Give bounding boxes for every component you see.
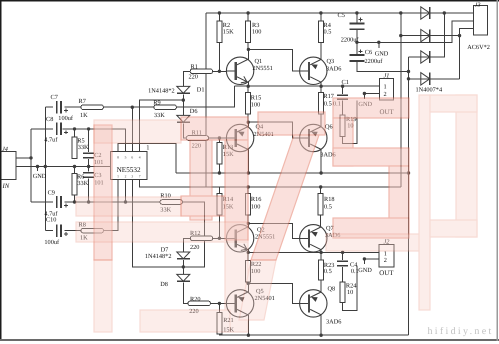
resistor R17 0.5 xyxy=(319,92,324,114)
wire C1 top lead xyxy=(342,86,344,94)
junction at (248.2,86.2) xyxy=(247,85,250,88)
wire opamp pin1 to -V rail xyxy=(118,144,176,174)
junction at (321.1,86.2) xyxy=(319,85,322,88)
junction at (408.5,78.8) xyxy=(407,77,410,80)
wire R1 row into Q1 base xyxy=(213,70,227,72)
svg-text:6: 6 xyxy=(131,155,133,159)
svg-text:15K: 15K xyxy=(223,29,234,36)
wire opamp out A to bias node xyxy=(140,100,184,151)
svg-text:hifidiy.net: hifidiy.net xyxy=(428,326,494,337)
junction at (219.4,71.3) xyxy=(218,70,221,73)
wire Q4 collector node to Q6 base xyxy=(248,122,299,138)
svg-text:1: 1 xyxy=(117,175,119,179)
svg-text:4.7uf: 4.7uf xyxy=(44,137,58,144)
wire Q2 collector stub xyxy=(247,223,249,227)
junction at (248.4,335.2) xyxy=(247,334,250,337)
connector J3 xyxy=(473,6,487,35)
capacitor C10 100uf xyxy=(56,224,68,236)
wire C9 right to R10 row xyxy=(64,201,160,203)
wire R12 row to Q2 base xyxy=(213,237,227,239)
wire GND stub at J4 xyxy=(37,167,39,172)
junction at (45.3,166.5) xyxy=(44,165,47,168)
wire Q2 emitter to out rail 2 xyxy=(247,250,249,253)
wire Q2 collector node to Q7 base xyxy=(248,223,299,238)
svg-text:8: 8 xyxy=(117,155,119,159)
svg-text:0.5: 0.5 xyxy=(324,29,332,36)
svg-text:GND: GND xyxy=(33,173,47,180)
wire Q6 collector to -V rail xyxy=(320,149,322,173)
transistor Q1 2N5551 xyxy=(226,57,253,84)
svg-text:1N4007*4: 1N4007*4 xyxy=(416,87,443,94)
diode D9 1N4007 xyxy=(421,73,430,85)
junction at (364.4,93.5) xyxy=(363,92,366,95)
capacitor C8 4.7uf xyxy=(56,123,68,135)
wire output rail 2 xyxy=(248,251,379,253)
wire Q4 collector stub xyxy=(247,122,249,126)
diode D5 1N4007 xyxy=(421,51,430,63)
capacitor C6 2200uf xyxy=(349,49,364,62)
diode D8 xyxy=(177,274,190,281)
svg-text:220: 220 xyxy=(190,244,199,251)
svg-text:2: 2 xyxy=(384,91,387,98)
svg-text:R7: R7 xyxy=(79,98,86,105)
resistor R20 220 xyxy=(188,301,210,306)
wire +V top rail xyxy=(206,12,473,14)
svg-text:7: 7 xyxy=(139,175,141,179)
junction at (342.6,252.4) xyxy=(341,251,344,254)
wire R6 top lead xyxy=(74,167,76,174)
op-amp U1 NE5532 xyxy=(111,152,147,180)
junction at (408.5,71.5) xyxy=(407,70,410,73)
wire D8 to R20 row xyxy=(183,282,188,303)
wire Q5 collector stub xyxy=(247,283,249,292)
resistor R15 100 xyxy=(246,92,251,114)
svg-text:220: 220 xyxy=(189,74,198,81)
capacitor C5 2200uf xyxy=(349,18,364,30)
junction at (248.2,283.4) xyxy=(247,282,250,285)
transistor Q8 3AD6 xyxy=(300,290,327,317)
wire C7-C10 ground vertical xyxy=(44,107,46,230)
svg-text:2200uf: 2200uf xyxy=(365,58,384,65)
svg-text:100: 100 xyxy=(251,203,260,210)
svg-text:NE5532: NE5532 xyxy=(117,166,141,174)
wire Q4 emitter to -V rail xyxy=(247,149,249,173)
diode D1 xyxy=(177,86,190,93)
resistor R10 33K xyxy=(160,200,182,205)
svg-text:1: 1 xyxy=(384,84,387,91)
transistor Q5 2N5401 xyxy=(226,290,253,317)
wire -V rail upper half xyxy=(176,172,409,174)
svg-text:0.5: 0.5 xyxy=(324,101,332,108)
wire C9 left lead xyxy=(31,201,53,203)
resistor R5 33K xyxy=(72,137,77,159)
wire C6 bottom to -V vertical xyxy=(357,62,409,71)
resistor R22 100 xyxy=(246,260,251,282)
junction at (356.9,13) xyxy=(355,11,358,14)
wire R4 leads xyxy=(320,13,322,21)
border frame xyxy=(0,0,499,2)
junction at (248.2,252.4) xyxy=(247,251,250,254)
junction at (400.8,13) xyxy=(399,11,402,14)
wire GND stub at C5/C6 xyxy=(378,42,380,48)
svg-text:AC6V*2: AC6V*2 xyxy=(467,44,490,51)
svg-text:Q3: Q3 xyxy=(327,58,335,65)
wire R21 top lead xyxy=(218,303,220,312)
wire J1 pin2 GND row xyxy=(364,93,379,95)
transistor Q3 3AD6 xyxy=(300,57,327,84)
junction at (356.9,42.3) xyxy=(355,41,358,44)
wire D7 to bias node xyxy=(182,260,184,267)
wire opamp in+ node from C8 xyxy=(62,129,125,152)
svg-text:3: 3 xyxy=(131,175,133,179)
wire C5 leads xyxy=(356,13,358,23)
junction at (183.3,266.9) xyxy=(182,265,185,268)
junction at (248.2,122.2) xyxy=(247,121,250,124)
svg-text:2N5551: 2N5551 xyxy=(253,65,273,72)
wire C3 leads xyxy=(88,167,90,172)
svg-text:Q6: Q6 xyxy=(325,124,333,131)
wire R13 top lead xyxy=(218,138,220,142)
resistor R14 15K xyxy=(217,193,222,215)
svg-text:C5: C5 xyxy=(338,12,345,19)
wire R7 right to R9 node xyxy=(103,106,154,108)
resistor R9 33K xyxy=(154,105,176,110)
capacitor C1 0.1 xyxy=(337,94,348,100)
svg-text:1N4148*2: 1N4148*2 xyxy=(148,88,175,95)
wire C2 bottom lead xyxy=(88,159,90,167)
wire mid GND row to opamp xyxy=(16,166,111,168)
junction at (364.4,258.9) xyxy=(363,257,366,260)
svg-text:4: 4 xyxy=(139,155,141,159)
wire R10 right to bottom bias node xyxy=(182,202,204,267)
svg-text:R1: R1 xyxy=(191,63,198,70)
wire C8 left lead xyxy=(31,128,53,130)
connector J1 xyxy=(380,79,394,100)
wire C7 left lead xyxy=(45,106,53,108)
svg-text:1N4148*2: 1N4148*2 xyxy=(145,253,172,260)
wire C10 left lead xyxy=(45,230,53,232)
svg-text:J3: J3 xyxy=(475,2,481,8)
wire bias node to D8 xyxy=(182,267,184,275)
junction at (74.5,166.5) xyxy=(73,165,76,168)
junction at (248.4,173) xyxy=(247,171,250,174)
junction at (400.8,35.6) xyxy=(399,34,402,37)
svg-text:33K: 33K xyxy=(77,180,88,187)
wire opamp out B to bottom bias node xyxy=(132,180,183,267)
wire Q1 collector to R3 node and over to Q3 base xyxy=(248,49,300,71)
capacitor C7 100uf xyxy=(56,101,68,113)
junction at (74.5,202) xyxy=(73,200,76,203)
junction at (132.3,107.2) xyxy=(131,106,134,109)
svg-text:OUT: OUT xyxy=(379,270,394,277)
wire R5 top lead xyxy=(74,129,76,137)
svg-text:J4: J4 xyxy=(2,146,8,153)
wire R6 bottom lead xyxy=(74,195,76,202)
junction at (183.3,100.1) xyxy=(182,98,185,101)
svg-text:D1: D1 xyxy=(197,86,205,93)
junction at (459.5,35.6) xyxy=(458,34,461,37)
junction at (37.5,166.5) xyxy=(36,165,39,168)
svg-text:2: 2 xyxy=(384,257,387,264)
junction at (444.3,13) xyxy=(443,11,446,14)
wire R15 leads xyxy=(247,86,249,92)
wire chain R1 left corner down to D1 xyxy=(183,71,190,86)
wire -V rail bottom xyxy=(219,334,408,335)
resistor R13 15K xyxy=(217,142,222,164)
wire Q8 collector to bottom rail xyxy=(320,315,322,335)
resistor R16 100 xyxy=(246,193,251,215)
diode D7 xyxy=(177,252,190,259)
svg-text:D8: D8 xyxy=(160,281,168,288)
resistor R11 220 xyxy=(186,136,208,141)
wire GND2 stub xyxy=(363,259,365,264)
junction at (125.5,202) xyxy=(124,200,127,203)
junction at (88.6,166.5) xyxy=(87,165,90,168)
wire R14 top lead xyxy=(218,187,220,193)
wire C7 right to R7 xyxy=(64,106,81,108)
resistor R21 15K xyxy=(217,313,222,335)
transistor Q6 3AD6 xyxy=(300,124,327,151)
wire C6 top lead xyxy=(356,42,358,54)
svg-text:5: 5 xyxy=(125,155,127,159)
junction at (248.2,223.4) xyxy=(247,222,250,225)
wire Q7 emitter to out rail 2 xyxy=(320,250,322,253)
wire Q5 emitter to bottom rail xyxy=(247,315,249,335)
connector J4 xyxy=(1,152,16,180)
wire D3 row xyxy=(409,13,445,57)
wire J2 pin2 GND row xyxy=(364,258,379,260)
wire Q1 collector stub xyxy=(247,49,249,59)
junction at (219.4,173) xyxy=(218,171,221,174)
wire Q3 collector to R4 xyxy=(320,43,322,60)
resistor R2 15K xyxy=(217,21,222,43)
wire Q3 emitter to out rail xyxy=(320,82,322,86)
svg-text:0.5: 0.5 xyxy=(324,268,332,275)
wire C4 bottom to R24 xyxy=(342,267,344,282)
wire bottom chain R12 corner xyxy=(183,238,190,252)
wire GND1 stub xyxy=(363,94,365,99)
transistor Q2 2N5551 xyxy=(226,225,253,252)
svg-text:IN: IN xyxy=(2,183,10,190)
wire D4 row xyxy=(409,78,460,80)
svg-text:R17: R17 xyxy=(323,93,334,100)
svg-text:Q8: Q8 xyxy=(328,285,336,292)
wire R9 right to output rail corner xyxy=(176,86,234,107)
svg-text:GND: GND xyxy=(358,267,372,274)
svg-text:0.5: 0.5 xyxy=(324,203,332,210)
svg-text:J1: J1 xyxy=(384,73,390,80)
junction at (378.8,42.3) xyxy=(377,41,380,44)
wire C10 right to R8 xyxy=(64,230,81,232)
junction at (248.4,49.4) xyxy=(247,48,250,51)
wire R8 right to opamp stub xyxy=(103,180,118,231)
svg-text:C8: C8 xyxy=(46,116,53,123)
wire rectifier -V vertical (D3/D4 anodes) xyxy=(408,57,410,335)
wire R20 row to Q5 base xyxy=(210,302,226,304)
wire R3 leads xyxy=(247,13,249,21)
svg-text:R16: R16 xyxy=(251,196,262,203)
wire R23 leads xyxy=(320,252,322,260)
junction at (321.1,173) xyxy=(319,171,322,174)
transistor Q7 3AD6 xyxy=(300,225,327,252)
svg-text:100: 100 xyxy=(252,29,261,36)
junction at (321.1,335.2) xyxy=(319,334,322,337)
svg-text:R20: R20 xyxy=(190,296,201,303)
diode D4 1N4007 xyxy=(421,29,430,41)
svg-text:GND: GND xyxy=(375,51,389,58)
svg-text:1: 1 xyxy=(146,145,149,152)
resistor R19 10 xyxy=(340,115,345,137)
resistor R24 10 xyxy=(340,282,345,302)
connector J2 xyxy=(379,245,394,268)
diode D6 xyxy=(177,115,190,122)
wire rectifier negative vertical (D1/D2 anodes) xyxy=(400,13,402,187)
resistor R23 0.5 xyxy=(319,260,324,280)
junction at (320.7,187) xyxy=(319,185,322,188)
capacitor C4 0.1 xyxy=(337,261,348,267)
svg-text:3AD6: 3AD6 xyxy=(326,318,341,325)
wire C1 bottom to R19 xyxy=(342,101,344,116)
svg-text:33K: 33K xyxy=(78,144,89,151)
junction at (219.4,303.4) xyxy=(218,302,221,305)
wire R18 leads xyxy=(320,187,322,193)
wire R16 leads xyxy=(247,187,249,193)
junction at (248.1,13) xyxy=(246,11,249,14)
watermark 1975 logo xyxy=(94,98,409,260)
junction at (88.6,202) xyxy=(87,200,90,203)
wire +V left drop to lower rail xyxy=(205,13,207,187)
wire D1 to bias node xyxy=(182,94,184,100)
svg-text:2: 2 xyxy=(125,175,127,179)
svg-text:R15: R15 xyxy=(251,94,261,101)
svg-text:R9: R9 xyxy=(153,99,160,106)
wire J4 signal stub to input vertical xyxy=(16,157,31,159)
wire C4 top lead xyxy=(342,252,344,260)
wire R22 leads xyxy=(247,252,249,260)
svg-text:10: 10 xyxy=(347,289,353,296)
svg-text:100uf: 100uf xyxy=(58,115,74,122)
wire center tap to J3 pin2 xyxy=(357,21,474,43)
junction at (219.4,13) xyxy=(218,11,221,14)
svg-text:C1: C1 xyxy=(342,79,349,86)
wire D6 to R11 row xyxy=(183,123,186,138)
wire Q5 collector node to Q8 base xyxy=(248,283,299,303)
resistor R6 33K xyxy=(72,174,77,196)
junction at (342.6,86.2) xyxy=(341,85,344,88)
junction at (31,157.9) xyxy=(29,156,32,159)
svg-text:C6: C6 xyxy=(365,49,372,56)
wire R9 left to pin stub xyxy=(132,107,154,151)
wire R14 bottom to Q2 base row xyxy=(218,215,220,238)
resistor R18 0.5 xyxy=(318,193,323,215)
svg-text:R18: R18 xyxy=(324,196,335,203)
wire C2 top lead xyxy=(88,129,90,152)
transistor Q4 2N5401 xyxy=(226,124,253,151)
wire R2 leads xyxy=(218,13,220,21)
wire D2 row xyxy=(401,35,460,37)
resistor R1 220 xyxy=(190,69,212,74)
wire output rail 1 xyxy=(234,85,379,87)
junction at (408.5,173) xyxy=(407,171,410,174)
junction at (74.5,128.9) xyxy=(73,127,76,130)
junction at (248.2,187) xyxy=(247,185,250,188)
svg-text:3AD6: 3AD6 xyxy=(326,65,341,72)
capacitor C2 101 xyxy=(83,153,94,159)
svg-text:C7: C7 xyxy=(51,94,58,101)
wire R24 bottom return to GND xyxy=(343,266,357,311)
svg-text:1K: 1K xyxy=(80,112,88,119)
svg-text:C10: C10 xyxy=(46,217,57,224)
wire R19 bottom return to GND xyxy=(343,101,357,144)
junction at (219.4,138) xyxy=(218,136,221,139)
resistor R4 0.5 xyxy=(318,21,323,43)
capacitor C3 101 xyxy=(83,172,94,178)
capacitor C9 4.7uf xyxy=(56,196,68,208)
resistor R7 1K xyxy=(81,105,103,110)
wire input vertical C8-C9 xyxy=(30,129,32,202)
svg-text:D6: D6 xyxy=(190,108,198,115)
wire R11 row to Q4 base xyxy=(209,137,227,139)
wire J3 pin3 drop xyxy=(460,28,474,78)
svg-text:100: 100 xyxy=(251,101,260,108)
resistor R12 220 xyxy=(190,236,212,241)
junction at (320.9,13) xyxy=(319,11,322,14)
svg-text:Q1: Q1 xyxy=(255,58,263,65)
resistor R3 100 xyxy=(246,21,251,43)
svg-text:100uf: 100uf xyxy=(44,239,60,246)
resistor R8 1K xyxy=(81,228,103,233)
svg-text:2200uf: 2200uf xyxy=(341,37,360,44)
wire opamp in- B stub xyxy=(125,180,127,202)
diode D3 1N4007 xyxy=(421,7,430,19)
junction at (219.4,238.3) xyxy=(218,237,221,240)
wire R17 leads xyxy=(320,86,322,92)
junction at (321.1,252.4) xyxy=(319,251,322,254)
wire Q1 emitter to out rail xyxy=(247,82,249,86)
svg-text:33K: 33K xyxy=(154,112,165,119)
wire lower +V rail (to bottom half) xyxy=(140,180,401,187)
junction at (88.6,128.9) xyxy=(87,127,90,130)
svg-text:C9: C9 xyxy=(48,190,55,197)
wire bias node to D6 xyxy=(182,100,184,115)
wire R13 bottom lead xyxy=(218,164,220,173)
